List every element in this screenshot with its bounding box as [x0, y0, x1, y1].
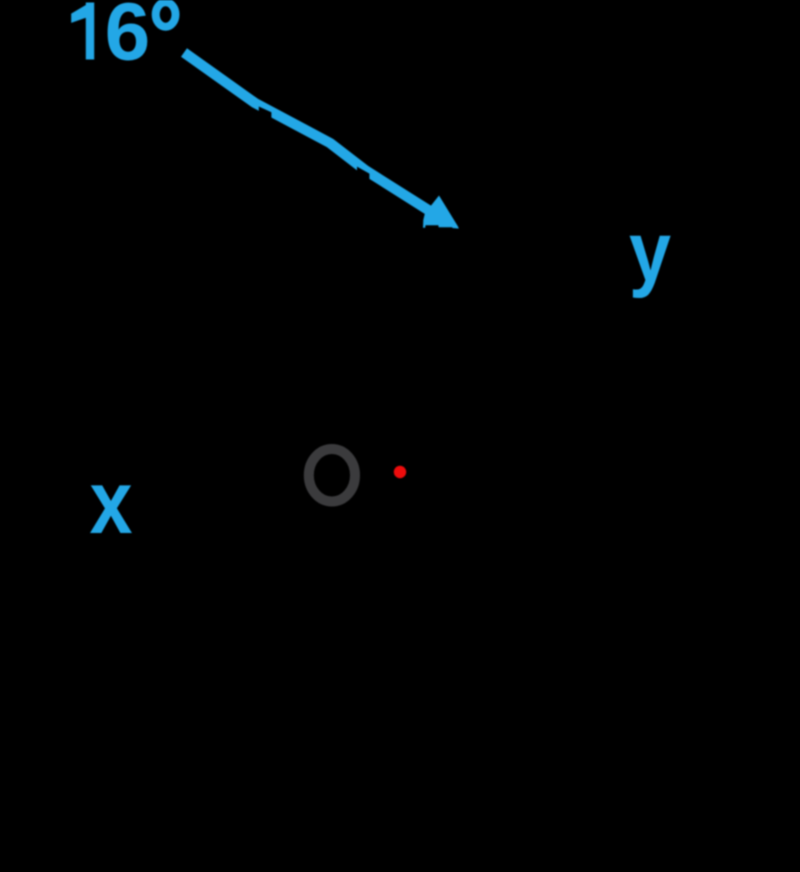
arrow wire (leader line): [184, 53, 433, 214]
svg-text:6: 6: [105, 0, 151, 78]
digit 1 of angle label: [71, 3, 94, 60]
degree sign ring: [156, 2, 176, 26]
wire nick 1 (stroke junction): [259, 107, 272, 122]
node O origin: [309, 449, 355, 502]
wire nick 2 (stroke junction): [357, 167, 369, 183]
svg-text:x: x: [90, 453, 133, 553]
arrowhead: [423, 196, 459, 229]
red dot point: [394, 466, 406, 478]
svg-text:y: y: [629, 205, 671, 299]
